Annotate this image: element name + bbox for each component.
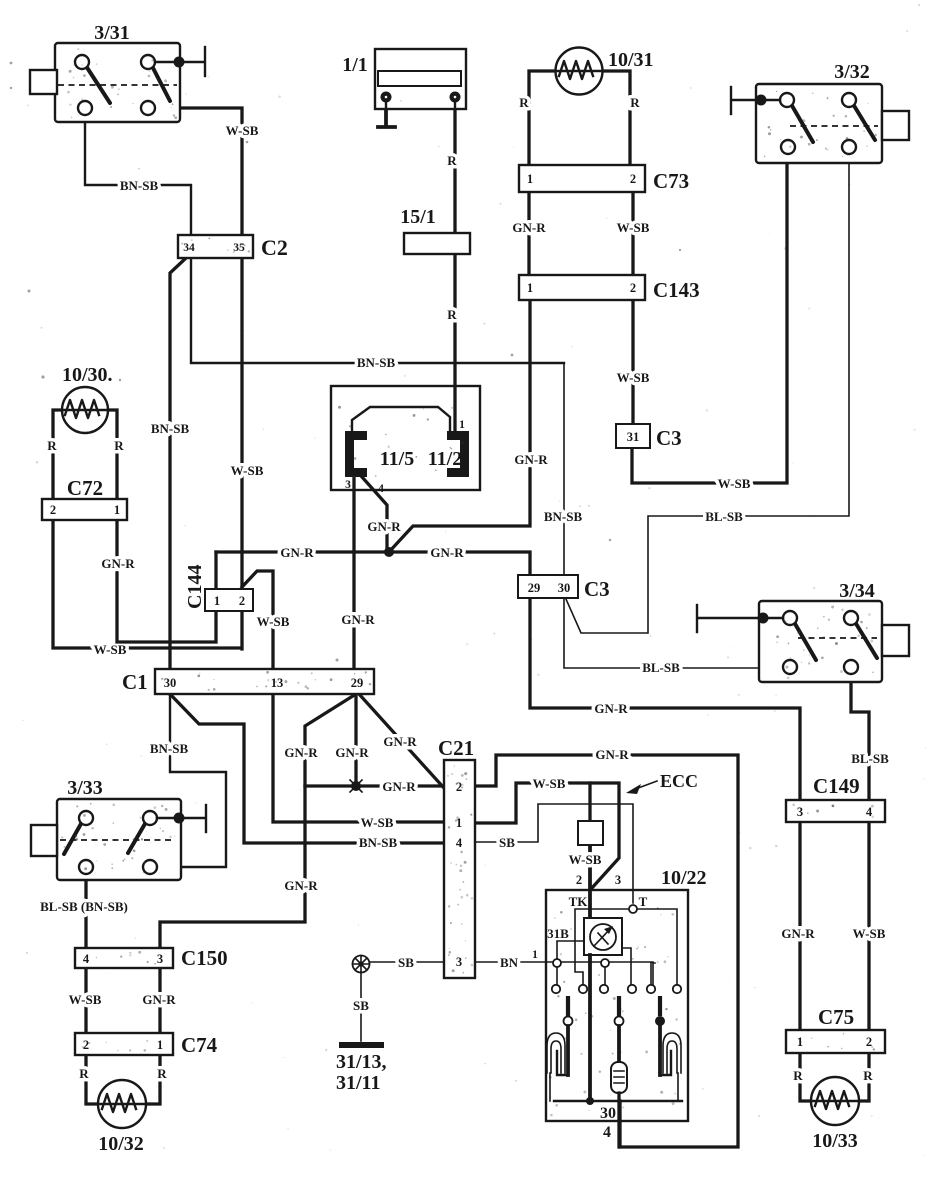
ECC callout label and arrow [626, 771, 698, 794]
wire W-SB connector C72 pin 2 across to connector C1 pin 13 [53, 520, 240, 657]
svg-text:10/22: 10/22 [661, 867, 707, 889]
open splice circles on BN line [553, 959, 609, 967]
svg-text:2: 2 [630, 172, 636, 186]
svg-text:31: 31 [627, 430, 640, 444]
svg-text:BN-SB: BN-SB [544, 509, 583, 524]
svg-text:C144: C144 [184, 565, 206, 609]
svg-text:1: 1 [459, 419, 465, 431]
bulb 10/30 [62, 364, 113, 433]
svg-text:T: T [639, 894, 648, 909]
svg-text:30: 30 [600, 1105, 616, 1122]
wire W-SB connector C144 pin 2 jog over to connector C1 pin 13 [242, 571, 290, 670]
svg-text:3/32: 3/32 [834, 61, 870, 83]
svg-text:1/1: 1/1 [342, 54, 368, 76]
connector C74 [75, 1033, 218, 1057]
ignition switch 10/22 inner frame [575, 909, 677, 985]
wire BN-SB from connector C2 pin 34 down to connector C1 pin 30 [151, 258, 190, 694]
svg-text:C3: C3 [656, 426, 682, 450]
svg-text:11/5: 11/5 [380, 448, 414, 470]
svg-text:BN: BN [500, 955, 519, 970]
svg-text:R: R [447, 307, 457, 322]
svg-text:R: R [863, 1068, 873, 1083]
fuse 15/1 [400, 206, 470, 254]
wire W-SB connector C150 pin 4 to connector C74 pin 2 [69, 968, 102, 1033]
ignition switch assembly 10/22 [546, 867, 707, 1121]
wire GN-R connector C21 pin 2 loop to ignition switch 10/22 terminal 4 [475, 747, 738, 1147]
svg-text:10/31: 10/31 [608, 49, 654, 71]
svg-text:3/34: 3/34 [839, 580, 875, 602]
svg-text:W-SB: W-SB [569, 852, 602, 867]
wire GN-R diagonal connector C1 pin 29 to connector C21 pin 2 [359, 694, 444, 788]
svg-text:C73: C73 [653, 169, 689, 193]
switch 3/31 door contact [30, 22, 205, 122]
svg-text:SB: SB [398, 955, 414, 970]
switch 3/34 door contact [697, 580, 909, 682]
connector C150 [75, 946, 228, 970]
svg-text:BN-SB: BN-SB [120, 178, 159, 193]
svg-text:BN-SB: BN-SB [359, 835, 398, 850]
svg-text:R: R [157, 1066, 167, 1081]
svg-text:W-SB: W-SB [361, 815, 394, 830]
wire W-SB connector C3 pin 31 to switch 3/32 lower-left terminal [632, 154, 787, 491]
internal stub wires in 10/22 [557, 948, 655, 985]
wire W-SB from switch 3/31 lower-right down to W-SB junction row [155, 108, 264, 649]
svg-text:W-SB: W-SB [617, 370, 650, 385]
switch 3/33 door contact [31, 777, 206, 880]
svg-text:31/11: 31/11 [336, 1072, 380, 1094]
svg-text:C143: C143 [653, 278, 700, 302]
connector C3 pins 29 30 [518, 575, 610, 601]
bulb 10/32 [98, 1080, 146, 1155]
svg-text:34: 34 [183, 242, 195, 254]
svg-text:3: 3 [345, 479, 351, 491]
wire GN-R connector C150 pin 3 to connector C74 pin 1 [142, 968, 176, 1033]
wire SB connector C21 pin 4 to ignition switch 10/22 terminal T [475, 804, 633, 903]
svg-text:2: 2 [866, 1035, 872, 1049]
unit 1/1 central electrical unit [342, 49, 466, 127]
svg-text:GN-R: GN-R [512, 220, 546, 235]
svg-text:13: 13 [271, 676, 284, 690]
connector C2 [178, 235, 288, 260]
wire BN-SB from connector C2 pin 34 across to connector C3 pin 30 [191, 258, 582, 575]
svg-text:4: 4 [378, 483, 384, 495]
connector C21 [438, 736, 475, 978]
svg-text:W-SB: W-SB [226, 123, 259, 138]
svg-text:10/33: 10/33 [812, 1130, 858, 1152]
svg-text:3: 3 [797, 805, 803, 819]
svg-text:1: 1 [157, 1038, 163, 1052]
wire BL-SB switch 3/33 lower-left to connector C150 pin 4 [40, 874, 128, 948]
svg-text:C2: C2 [261, 235, 288, 260]
wire BL-SB switch 3/34 lower-right terminal to connector C149 pin 4 [851, 674, 889, 800]
connector C72 [42, 476, 127, 520]
svg-text:W-SB: W-SB [231, 463, 264, 478]
svg-text:BL-SB (BN-SB): BL-SB (BN-SB) [40, 899, 128, 914]
svg-text:R: R [793, 1068, 803, 1083]
svg-text:2: 2 [239, 594, 245, 608]
svg-text:2: 2 [83, 1038, 89, 1052]
wire BN connector C21 pin 3 into ignition switch 10/22 terminal 1 [475, 949, 653, 985]
wire SB connector C21 pin 3 to ground splice [369, 955, 444, 970]
wire GN-R spliced node to connector C21 pin 2 [305, 779, 444, 794]
svg-text:BL-SB: BL-SB [642, 660, 680, 675]
svg-text:3: 3 [157, 952, 163, 966]
svg-text:30: 30 [558, 581, 571, 595]
svg-text:3/33: 3/33 [67, 777, 103, 799]
svg-text:1: 1 [214, 594, 220, 608]
connector C73 [519, 165, 689, 193]
svg-text:R: R [114, 438, 124, 453]
junction dot on GN-R bus [384, 547, 394, 557]
svg-text:R: R [79, 1066, 89, 1081]
wire BN-SB connector C1 pin 30 to switch 3/33 lower-right terminal [150, 694, 226, 867]
svg-text:GN-R: GN-R [284, 745, 318, 760]
svg-text:29: 29 [528, 581, 541, 595]
wire R right lead of bulb 10/30 to connector C72 pin 1 [107, 410, 124, 499]
label 31B and its wire [547, 926, 584, 959]
wire R from unit 1/1 through fuse 15/1 to instrument 11/2 pin 1 [447, 110, 457, 430]
svg-text:GN-R: GN-R [335, 745, 369, 760]
svg-text:1: 1 [527, 281, 533, 295]
svg-text:W-SB: W-SB [617, 220, 650, 235]
svg-text:3: 3 [615, 873, 621, 887]
connector C75 [786, 1005, 885, 1053]
wire GN-R instrument 11/5 pin 3 down to connector C1 pin 29 [341, 477, 375, 669]
svg-text:C75: C75 [818, 1005, 854, 1029]
connector C144 [184, 565, 253, 611]
bulb 10/31 [556, 48, 654, 95]
svg-text:1: 1 [532, 949, 538, 961]
svg-text:W-SB: W-SB [853, 926, 886, 941]
svg-text:10/30.: 10/30. [62, 364, 113, 386]
wire R left lead of bulb 10/31 to connector C73 pin 1 [519, 71, 556, 165]
svg-text:31B: 31B [547, 926, 569, 941]
svg-text:3: 3 [456, 955, 462, 969]
svg-text:1: 1 [114, 503, 120, 517]
svg-text:GN-R: GN-R [514, 452, 548, 467]
svg-text:R: R [519, 95, 529, 110]
centre resistor capsule in 10/22 [611, 1026, 627, 1147]
wire R left lead of bulb 10/30 to connector C72 pin 2 [47, 410, 64, 499]
svg-text:4: 4 [456, 836, 463, 850]
wire GN-R connector C73 pin 1 to connector C143 pin 1 [512, 192, 546, 275]
wire R connector C74 pin 2 to bulb 10/32 [79, 1055, 99, 1104]
svg-text:4: 4 [603, 1124, 611, 1141]
wire GN-R instrument 11/2 pin 4 down to splice junction [362, 477, 401, 550]
svg-text:W-SB: W-SB [533, 776, 566, 791]
svg-text:1: 1 [527, 172, 533, 186]
wire R connector C74 pin 1 to bulb 10/32 [146, 1055, 167, 1104]
connector C3 pin 31 [616, 424, 682, 450]
svg-text:ECC: ECC [660, 771, 698, 791]
wire GN-R bus from connector C144 through splice to connector C3 pin 29 [216, 545, 530, 575]
wire GN-R connector C149 pin 3 to connector C75 pin 1 [781, 822, 815, 1030]
svg-text:SB: SB [499, 835, 515, 850]
svg-text:R: R [47, 438, 57, 453]
svg-text:R: R [630, 95, 640, 110]
svg-text:29: 29 [351, 676, 364, 690]
svg-text:2: 2 [576, 873, 582, 887]
wire W-SB connector C149 pin 4 to connector C75 pin 2 [853, 822, 886, 1030]
svg-text:C74: C74 [181, 1033, 218, 1057]
svg-text:SB: SB [353, 998, 369, 1013]
switch 3/32 door contact [731, 61, 909, 163]
svg-text:GN-R: GN-R [341, 612, 375, 627]
svg-text:GN-R: GN-R [101, 556, 135, 571]
ECC time relay box [578, 821, 603, 845]
wire BN-SB from switch 3/31 lower-left to connector C2 pin 34 [85, 115, 191, 235]
wire GN-R connector C3 pin 29 to connector C149 pin 3 [530, 598, 800, 800]
svg-text:2: 2 [50, 503, 56, 517]
svg-text:W-SB: W-SB [69, 992, 102, 1007]
svg-text:GN-R: GN-R [280, 545, 314, 560]
ground splice symbol [353, 956, 370, 973]
svg-text:TK: TK [569, 894, 589, 909]
svg-text:BN-SB: BN-SB [151, 421, 190, 436]
right lamp socket in 10/22 [660, 1026, 681, 1101]
ground 31/13 31/11 [336, 1042, 387, 1094]
svg-text:BN-SB: BN-SB [150, 741, 189, 756]
wire R connector C75 pin 1 to bulb 10/33 [793, 1053, 812, 1101]
wire SB ground splice to ground 31/13 31/11 [353, 972, 369, 1041]
svg-text:GN-R: GN-R [382, 779, 416, 794]
wire BN-SB connector C1 pin 30 to connector C21 pin 4 [170, 694, 444, 850]
internal earth bus of 10/22 with terminal 30 [554, 955, 682, 1141]
connector C1 [122, 669, 374, 694]
svg-text:C149: C149 [813, 774, 860, 798]
wire GN-R connector C1 pin 29 straight down to spliced node [335, 694, 369, 780]
svg-text:4: 4 [83, 952, 90, 966]
connector C149 [786, 774, 885, 822]
terminal T circle inside 10/22 [629, 905, 637, 913]
wire GN-R connector C1 pin 29 to connector C150 pin 3 [160, 694, 356, 948]
svg-text:C150: C150 [181, 946, 228, 970]
instrument cluster 11/5 11/2 [331, 386, 480, 495]
svg-text:W-SB: W-SB [257, 614, 290, 629]
svg-text:30: 30 [164, 676, 177, 690]
svg-text:W-SB: W-SB [94, 642, 127, 657]
gauge unit inside 10/22 [584, 918, 622, 955]
wire GN-R connector C143 pin 1 down to centre splice junction [388, 300, 548, 553]
wire R right lead of bulb 10/31 to connector C73 pin 2 [603, 71, 640, 165]
svg-text:10/32: 10/32 [98, 1133, 144, 1155]
svg-text:C72: C72 [67, 476, 103, 500]
wire W-SB connector C1 pin 13 to connector C21 pin 1 [273, 694, 444, 830]
svg-text:31/13,: 31/13, [336, 1051, 387, 1073]
svg-text:BN-SB: BN-SB [357, 355, 396, 370]
connector C143 [519, 275, 700, 302]
svg-text:BL-SB: BL-SB [705, 509, 743, 524]
svg-text:C1: C1 [122, 670, 148, 694]
svg-text:W-SB: W-SB [718, 476, 751, 491]
wire GN-R connector C72 pin 1 to connector C144 pin 1 [101, 520, 216, 642]
svg-text:11/2: 11/2 [428, 448, 462, 470]
left lamp socket in 10/22 [547, 1026, 568, 1101]
svg-text:GN-R: GN-R [594, 701, 628, 716]
svg-text:GN-R: GN-R [781, 926, 815, 941]
spliced node on GN-R run below C1 [350, 780, 362, 792]
svg-text:2: 2 [630, 281, 636, 295]
svg-text:GN-R: GN-R [284, 878, 318, 893]
wire R connector C75 pin 2 to bulb 10/33 [858, 1053, 873, 1101]
svg-text:R: R [447, 153, 457, 168]
svg-text:GN-R: GN-R [430, 545, 464, 560]
svg-text:C3: C3 [584, 577, 610, 601]
svg-text:15/1: 15/1 [400, 206, 436, 228]
wire connector C144 pin 1 up to GN-R bus [214, 552, 217, 589]
wire W-SB connector C73 pin 2 to connector C143 pin 2 [617, 192, 650, 275]
svg-text:C21: C21 [438, 736, 474, 760]
svg-text:GN-R: GN-R [595, 747, 629, 762]
wire W-SB connector C21 pin 1 to ignition switch 10/22 terminal TK [475, 776, 619, 918]
svg-text:GN-R: GN-R [367, 519, 401, 534]
svg-text:GN-R: GN-R [142, 992, 176, 1007]
wire BL-SB switch 3/32 lower-right terminal to connector C3 pin 30 [566, 154, 849, 633]
contact plungers in 10/22 [564, 996, 666, 1026]
wire BL-SB connector C3 pin 30 to switch 3/34 lower-left terminal [564, 598, 790, 675]
svg-text:GN-R: GN-R [383, 734, 417, 749]
terminal circle row in 10/22 [552, 985, 681, 993]
wire W-SB connector C143 pin 2 to connector C3 pin 31 [617, 300, 650, 424]
bulb 10/33 [811, 1077, 859, 1152]
svg-text:3/31: 3/31 [94, 22, 130, 44]
svg-text:BL-SB: BL-SB [851, 751, 889, 766]
